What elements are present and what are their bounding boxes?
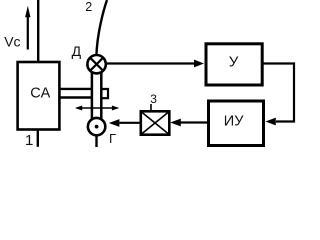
bracket on right side of pipe bbox=[101, 89, 108, 98]
svg-text:ИУ: ИУ bbox=[224, 114, 244, 130]
leader line for label 3 bbox=[150, 104, 152, 111]
svg-text:Vc: Vc bbox=[4, 33, 20, 49]
svg-text:1: 1 bbox=[25, 132, 33, 149]
wire: ИУ to valve 3 with arrow bbox=[170, 119, 208, 127]
wire: upper rod from CA to pipe bbox=[61, 88, 92, 90]
double-headed motion arrow across pipe bbox=[75, 106, 120, 111]
svg-text:CA: CA bbox=[30, 85, 50, 101]
wire: stem below Г bbox=[95, 136, 97, 148]
wire: curved line 2 into top of Д bbox=[96, 0, 107, 56]
wire: feedback У right side down to ИУ with arrow bbox=[264, 64, 295, 126]
svg-text:Д: Д bbox=[72, 43, 82, 59]
wire: valve 3 to Г with arrow bbox=[109, 119, 140, 127]
pipe right line (between Д and Г) bbox=[100, 72, 103, 120]
valve 3 (crossed square) bbox=[141, 111, 170, 134]
svg-text:Г: Г bbox=[109, 131, 116, 146]
sensor Д (circle with X) bbox=[87, 55, 105, 73]
wire: lower rod from CA to pipe bbox=[61, 96, 92, 98]
gyro Г (circle with dot) bbox=[88, 118, 105, 135]
block ИУ (actuator) bbox=[209, 101, 264, 146]
block CA (servo actuator), designator 1 bbox=[18, 62, 60, 130]
svg-text:3: 3 bbox=[150, 92, 157, 106]
svg-text:У: У bbox=[229, 54, 239, 71]
wire: stem below block 1 bbox=[37, 130, 39, 147]
block У (amplifier) bbox=[206, 44, 262, 85]
svg-text:2: 2 bbox=[85, 0, 92, 14]
arrow Vc (upward velocity arrow) bbox=[25, 6, 30, 50]
wire: Д to block У with arrow bbox=[106, 60, 204, 68]
wire: input line from top into block 1 bbox=[37, 0, 39, 62]
pipe left line (between Д and Г) bbox=[91, 72, 94, 120]
